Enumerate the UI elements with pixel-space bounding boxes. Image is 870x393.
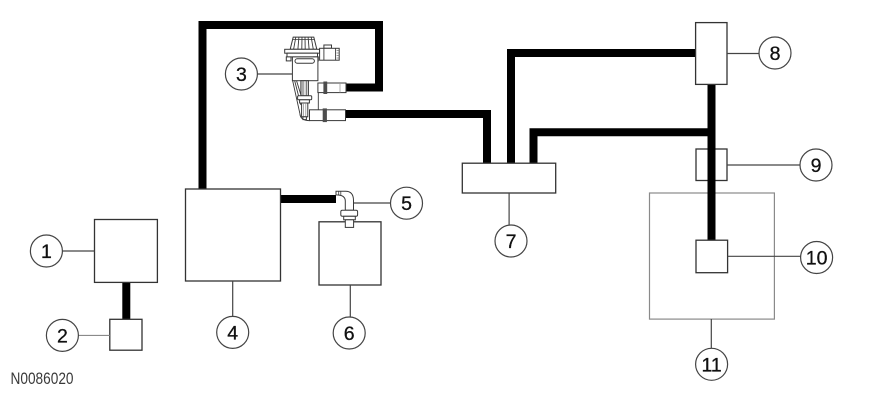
callout line 9 xyxy=(727,164,800,166)
callout line 1 xyxy=(62,250,94,252)
box 9 (in-line fitting) xyxy=(696,149,727,181)
svg-text:10: 10 xyxy=(806,248,828,270)
hose from box 4 right to elbow fitting 5 xyxy=(280,195,336,203)
hose from box 4 up and over to valve 3 upper port xyxy=(203,25,380,190)
callout circle 11 xyxy=(696,348,728,380)
svg-text:4: 4 xyxy=(227,322,238,344)
callout line 7 xyxy=(508,193,510,225)
svg-text:2: 2 xyxy=(57,325,68,347)
valve body xyxy=(292,57,318,81)
valve upper port (to hose) xyxy=(318,83,346,93)
valve cap xyxy=(290,37,317,49)
callout line 8 xyxy=(727,53,759,55)
callout circle 10 xyxy=(801,242,833,274)
callout circle 2 xyxy=(46,319,78,351)
callout line 3 xyxy=(257,73,292,75)
box 2 xyxy=(110,319,142,350)
callout line 10 xyxy=(728,255,801,257)
hose from box 1 down to box 2 xyxy=(122,282,130,320)
callout circle 9 xyxy=(800,149,832,181)
svg-text:6: 6 xyxy=(344,323,355,345)
valve elbow curve xyxy=(300,114,310,121)
svg-text:1: 1 xyxy=(41,241,52,263)
svg-text:7: 7 xyxy=(506,231,517,253)
valve lower neck xyxy=(301,81,309,96)
valve port link line xyxy=(317,93,319,110)
callout circle 1 xyxy=(30,235,62,267)
callout line 11 xyxy=(710,319,712,348)
box 10 (fuel tank fitting) xyxy=(696,240,728,273)
valve collar xyxy=(298,96,312,100)
box 1 xyxy=(95,220,158,283)
box 6 xyxy=(319,222,381,285)
valve lower port (to hose) xyxy=(310,110,346,121)
callout line 2 xyxy=(78,334,109,336)
valve lower cone hatch xyxy=(293,81,302,114)
svg-text:N0086020: N0086020 xyxy=(11,370,74,388)
box 4 (EVAP canister purge valve bracket) xyxy=(186,189,281,281)
callout circle 8 xyxy=(759,37,791,69)
box 11 (fuel tank outline) xyxy=(650,193,775,319)
valve flange xyxy=(285,49,320,53)
svg-text:9: 9 xyxy=(811,155,822,177)
callout circle 6 xyxy=(333,317,365,349)
svg-text:5: 5 xyxy=(401,193,412,215)
valve stem xyxy=(302,103,308,117)
elbow fitting component 5 drawing xyxy=(336,191,358,227)
callout circle 4 xyxy=(217,316,249,348)
hose from box 8 down through box 9 to box 10 xyxy=(708,84,716,240)
callout line 6 xyxy=(349,285,351,317)
svg-text:3: 3 xyxy=(236,64,247,86)
valve electrical connector xyxy=(324,45,332,48)
svg-text:8: 8 xyxy=(770,43,781,65)
hose from box 7 up and over to tee below box 8 xyxy=(534,132,716,164)
hose from box 7 up and over to box 8 xyxy=(511,53,696,164)
valve component 3 drawing xyxy=(285,37,346,122)
svg-text:11: 11 xyxy=(701,354,721,376)
callout circle 7 xyxy=(495,225,527,257)
callout line 5 xyxy=(354,202,391,204)
callout circle 5 xyxy=(391,187,423,219)
box 7 (manifold connector) xyxy=(462,163,555,193)
callout circle 3 xyxy=(225,58,257,90)
callout line 4 xyxy=(232,281,234,316)
box 8 xyxy=(696,23,727,85)
hose from valve 3 lower port to box 7 xyxy=(346,114,487,164)
